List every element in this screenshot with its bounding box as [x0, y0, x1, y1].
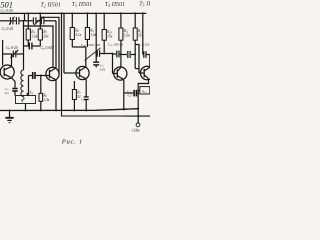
svg-text:С8 0-25: С8 0-25	[6, 46, 18, 51]
svg-text:R16: R16	[141, 89, 147, 94]
svg-text:+24в: +24в	[131, 128, 139, 133]
svg-text:Т2 П501: Т2 П501	[41, 3, 61, 9]
svg-text:15к: 15к	[107, 35, 113, 39]
svg-text:Т3 П501: Т3 П501	[72, 2, 92, 8]
svg-text:С10 1000-160: С10 1000-160	[81, 43, 100, 48]
svg-text:С4 0-25: С4 0-25	[2, 27, 14, 32]
svg-text:Т5 П: Т5 П	[139, 2, 150, 8]
svg-text:С3 0-25: С3 0-25	[1, 8, 13, 14]
svg-text:Т4 П501: Т4 П501	[105, 2, 125, 8]
svg-text:L1: L1	[29, 90, 34, 96]
svg-text:20к: 20к	[43, 35, 49, 39]
svg-text:С12 100-10: С12 100-10	[108, 43, 124, 48]
svg-text:51к: 51к	[138, 33, 144, 37]
svg-text:Рис. 1: Рис. 1	[61, 138, 83, 145]
